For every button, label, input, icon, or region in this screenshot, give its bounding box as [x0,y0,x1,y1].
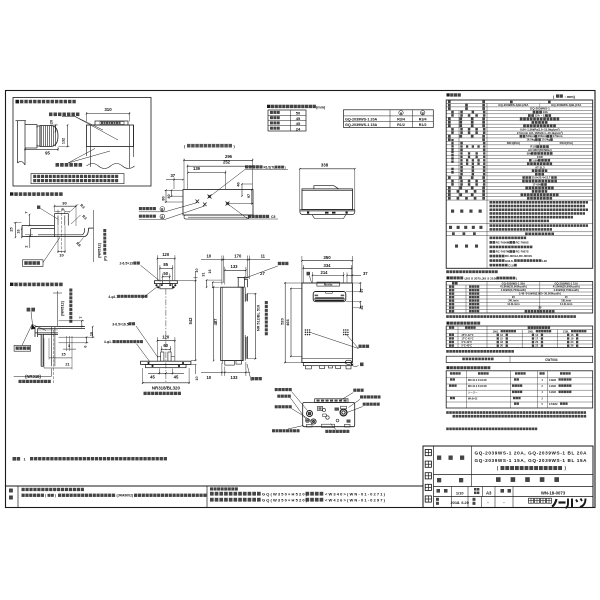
spec row 26 [532,190,547,193]
fixing table header cells [450,372,461,374]
svg-text:L38: L38 [542,259,547,263]
svg-text:160L: 160L [493,329,499,333]
label: hot water connection [275,405,292,408]
svg-text:(NR512): (NR512) [60,300,65,316]
svg-text:R3/4: R3/4 [419,117,428,121]
svg-text:139: 139 [193,166,201,171]
circled A header [399,111,403,115]
side view rear bracket strips [245,294,247,301]
svg-text:7: 7 [79,316,83,318]
svg-text:AT-3L3: AT-3L3 [535,165,545,169]
front base feet and stubs [306,366,312,369]
spec row 17 standby [529,159,532,162]
hole marker A (katakana a) [307,272,311,276]
svg-text:10: 10 [206,254,211,259]
svg-text:A3: A3 [486,491,492,496]
bottom view center parts [318,407,323,411]
spec row 21 material [535,173,544,176]
svg-text:C110: C110 [508,263,515,267]
label leader: alcove body [49,113,79,117]
notes cell label [17,486,19,508]
svg-text:M4×11.2 44.8×38: M4×11.2 44.8×38 [468,379,487,382]
bottom view gas connection [340,409,347,416]
svg-text:45: 45 [150,374,155,379]
svg-text:25°C-42°C: 25°C-42°C [462,334,474,337]
note under capacity table [446,315,576,318]
svg-text:11: 11 [261,254,266,259]
front view bottom seam [302,358,352,360]
PS frame reference line 1 [210,492,261,496]
svg-text:10: 10 [195,376,199,380]
wall fixing table header [447,366,450,369]
svg-text:GQ-2039WS-1 20A: GQ-2039WS-1 20A [502,281,526,285]
spec row 7 ignition [523,125,556,128]
perspective view top face [183,190,253,216]
drawing name label [437,478,441,482]
svg-text:0.54kN/: 0.54kN/ [549,403,558,406]
svg-text:0.3kN/: 0.3kN/ [549,379,556,382]
svg-text:50: 50 [163,271,168,276]
svg-text:RC-8001A,RC-8001S: RC-8001A,RC-8001S [505,254,532,258]
svg-text:95: 95 [45,150,50,155]
svg-text:27: 27 [260,271,265,276]
fixing table data [450,378,455,380]
hot water marker [196,200,200,204]
svg-text:GQ-2039WS-1(BL)20A: GQ-2039WS-1(BL)20A [498,103,529,107]
svg-text:NR 512/BL 510: NR 512/BL 510 [257,305,261,331]
label: drain valve [277,395,291,398]
front exhaust grille [313,292,346,302]
notes text [22,488,84,491]
svg-text:(NR512): (NR512) [97,242,102,258]
spec row 20 material stainless [532,169,547,172]
detail A hat section [54,214,56,237]
svg-text:133: 133 [231,264,239,269]
top view top tab [314,186,339,189]
label: earth terminal screw [325,430,349,433]
label: air intake (front) [359,345,370,348]
svg-text:15.5kg: 15.5kg [541,138,550,142]
svg-text:45: 45 [296,121,301,126]
svg-text:173mm: 173mm [553,134,563,138]
bottom view body [303,403,355,427]
black arrow corner mark [31,324,35,329]
alcove side view cover (hatched) [40,126,58,147]
svg-text:2: 2 [24,245,28,247]
svg-text:GQ-2039WS-1 15A: GQ-2039WS-1 15A [554,281,578,285]
alcove front view top tab [95,121,128,125]
svg-text:GQ(W350×H520): GQ(W350×H520) [262,498,308,503]
svg-text:40: 40 [237,182,241,186]
spec row 27 [521,194,559,197]
boxed label: unit top face [23,260,44,267]
svg-text:(PS: (PS [104,256,108,261]
bottom bracket plate [141,361,191,364]
svg-text:296: 296 [225,154,233,159]
small table depth grid [268,110,306,131]
svg-text:(mm): (mm) [316,105,326,109]
spec row 5 installation [520,118,559,121]
svg-text:GQ(W350×H520): GQ(W350×H520) [262,492,308,497]
outer drawing frame [6,91,596,508]
front bottom right hole ellipse [345,360,352,364]
spec row 4 gas types [528,114,534,117]
svg-text:120: 120 [162,252,170,257]
svg-text:30: 30 [62,200,67,205]
weld dots bottom bracket [148,362,150,364]
svg-text:210L: 210L [563,329,569,333]
detail B profile [35,326,85,328]
svg-text:45: 45 [296,116,301,121]
svg-text:NR318/BL320: NR318/BL320 [152,385,181,390]
label: power conduit C5 [248,215,269,218]
boxed label: unit rear face [14,345,31,351]
label leader: tapping screw [56,163,83,167]
spec row 22 exhaust cover data [522,176,531,179]
svg-text:60: 60 [163,343,168,348]
spec row 6 exhaust type [532,121,548,124]
alcove front view body [87,125,134,147]
scale row cells [451,487,453,497]
svg-text:21: 21 [65,362,69,366]
svg-text:R1/2(TL: R1/2(TL [264,166,276,170]
svg-text:310: 310 [104,107,112,112]
svg-text:<W340>(WN-01-0271): <W340>(WN-01-0271) [325,492,386,497]
bottom view top vent band [315,399,348,403]
Noritz company logo [529,498,534,503]
hole marker I (katakana i) bottom [360,363,364,367]
label: backflow safety device [272,429,300,432]
svg-text:R1/2(15A): R1/2(15A) [560,141,573,145]
weld dots top bracket [156,284,158,286]
svg-text:17°C-42°C: 17°C-42°C [462,338,474,341]
svg-text:M4.8×12: M4.8×12 [468,397,478,400]
bottom notes divider line [6,485,424,487]
svg-text:): ) [516,276,517,280]
svg-text:): ) [55,494,56,498]
svg-text:25: 25 [10,227,14,231]
svg-text:50: 50 [296,111,301,116]
svg-text:10: 10 [206,375,211,380]
svg-text:41.8kW(35,900kcal/h): 41.8kW(35,900kcal/h) [500,285,527,289]
svg-text:15: 15 [61,353,65,357]
bath table headers [449,326,454,328]
certification number table [446,356,593,362]
spec row 23 BL cert [522,180,557,183]
label: alcove exhaust cover L38 [16,100,20,104]
svg-text:1: 1 [24,458,26,462]
spec table label column line [486,103,488,268]
svg-text:132: 132 [62,138,66,144]
svg-text:R3/4: R3/4 [397,117,406,121]
svg-text:4-φ1.7: 4-φ1.7 [108,295,118,299]
svg-text:350: 350 [323,255,331,260]
label: gas connection R1/2 TL [245,165,263,168]
note: remote controller types [446,270,498,273]
svg-text:7: 7 [24,211,28,213]
small table depth rows [270,111,280,114]
bath fill time header [447,322,450,325]
label: gas connection (bottom view) [363,403,380,406]
bottom view hot water outlet [311,419,316,424]
title block row lines [434,474,594,476]
spec table title [447,93,450,96]
label leader: slot hole (detail B) [27,308,35,312]
svg-text:170: 170 [234,254,242,259]
label: air intake (bottom view) [353,389,363,392]
title block vertical label: delivery spec drawing [425,450,431,456]
detail B slot verticals [51,327,53,367]
front logo plate [317,282,340,286]
svg-text:R1/2: R1/2 [397,123,405,127]
detail A profile lines [22,225,55,227]
svg-text:): ) [285,166,286,170]
svg-text:4.30kW(3,700kcal/h): 4.30kW(3,700kcal/h) [553,288,579,292]
bottom view bottom tabs [322,424,335,427]
cold water marker [203,203,207,207]
product name label [471,446,473,487]
detail A slot centerline [61,209,63,254]
svg-text:14.3L/min: 14.3L/min [560,302,573,306]
svg-text:18L/min: 18L/min [561,299,572,303]
svg-text:120: 120 [162,334,170,339]
svg-text:133: 133 [231,375,239,380]
svg-text:R1/2: R1/2 [419,123,427,127]
svg-text:338: 338 [321,162,329,167]
small table: model connection sizes [344,110,434,128]
svg-text:GQ-2039WS-1 20A, GQ-2039WS-1 B: GQ-2039WS-1 20A, GQ-2039WS-1 BL 20A [475,450,588,455]
svg-text:41.8kW(35,900kcal/h): 41.8kW(35,900kcal/h) [553,285,580,289]
alcove cover detail box [13,98,151,187]
note box: direction change text [31,174,124,184]
front view body [302,283,353,363]
label: cold water connection circled A [139,215,156,218]
note under bath table [446,350,514,353]
svg-text:97: 97 [247,194,251,198]
PS frame reference line 2 [210,498,261,502]
svg-text:542: 542 [188,317,193,325]
spec row 18 freeze heater [527,162,552,165]
label: air intake (side) [251,377,262,380]
alcove front view lower body with break line [90,147,92,168]
front view base [303,363,351,366]
label: hot water connection circled B [139,207,156,210]
svg-text:(JRA9002): (JRA9002) [117,494,134,498]
svg-text:45: 45 [174,374,179,379]
svg-text:31: 31 [202,272,206,276]
label PS frame mounting pitch bottom [144,392,181,395]
date row cells [451,497,453,508]
svg-text:H33-K,: H33-K, [505,259,514,263]
svg-text:GQ-2039WS-1 15A, GQ-2039WS-1 B: GQ-2039WS-1 15A, GQ-2039WS-1 BL 15A [475,458,588,463]
front vent holes right group [343,329,344,330]
spec row header [510,101,513,104]
spec row 1 model names [539,103,541,106]
svg-text:6: 6 [62,208,64,212]
accessory row [452,232,455,235]
bracket centerline [165,289,167,352]
side view body [221,287,244,360]
top view mount dots [307,212,309,214]
svg-text:9°C-42°C: 9°C-42°C [462,341,473,344]
svg-text:10: 10 [59,253,64,258]
svg-text:C5: C5 [271,215,275,219]
alcove side view wall [17,121,19,163]
note: PS frame mounting uses holes A and I [13,457,21,461]
svg-text:1/10: 1/10 [456,490,464,495]
front vent holes left group [305,329,306,330]
power conduit marker [226,202,230,206]
spec row 10 dimensions [520,135,526,138]
svg-text:2-6.5×13: 2-6.5×13 [120,262,134,266]
svg-text:6: 6 [83,345,87,347]
svg-text:WN-18-0073: WN-18-0073 [541,490,566,495]
svg-text:0.2kN/: 0.2kN/ [549,391,556,394]
svg-text:24: 24 [296,126,301,131]
svg-text:16.5kg: 16.5kg [526,138,535,142]
svg-text:RC-7606M,: RC-7606M, [496,241,511,245]
svg-text:0.2kN/: 0.2kN/ [549,385,556,388]
svg-text:3: 3 [68,344,70,348]
svg-text:RC-7607S: RC-7607S [516,250,529,254]
svg-text:20: 20 [50,120,54,124]
small table: depth from back plate header [267,105,270,108]
svg-text:37: 37 [363,271,368,276]
capacity table header [447,276,450,279]
svg-text:180L: 180L [528,329,534,333]
svg-text:17-009: 17-009 [532,183,541,187]
svg-text:80: 80 [161,196,165,200]
circled B header [421,111,425,115]
top view body [302,189,353,210]
label: power conduit connection [360,395,381,398]
svg-text:35.9×25.4×13.7: 35.9×25.4×13.7 [532,176,551,180]
svg-text:4.30kW(3,700kcal/h): 4.30kW(3,700kcal/h) [501,288,527,292]
svg-text:40: 40 [167,194,171,198]
svg-text:RC-7607M,: RC-7607M, [496,250,511,254]
spec row 12 gas connection [539,141,541,144]
svg-text:24L/min: 24L/min [508,299,519,303]
svg-text:2018. 6.20: 2018. 6.20 [451,500,469,505]
svg-text:37: 37 [170,173,175,178]
label: exhaust outlet (top center) [278,262,289,265]
svg-text:334: 334 [324,263,332,268]
spec table main grid [446,100,593,268]
svg-text:3-6.5×16.5: 3-6.5×16.5 [112,322,128,326]
top view bottom tab [312,215,346,219]
bath table data rows [449,334,454,336]
hole mark label [37,206,40,209]
svg-text:520: 520 [279,318,284,325]
bottom view inner left: water inlet [307,411,313,417]
safety devices cell label [451,210,454,213]
optional items cell [455,245,458,248]
side view exhaust duct [238,277,244,287]
spec row 3 gas group [533,111,542,114]
svg-text:GQ-2039WS-1 15A: GQ-2039WS-1 15A [345,123,378,127]
svg-text:15: 15 [565,295,568,299]
svg-text:20: 20 [512,295,515,299]
top bracket shape [155,281,178,284]
bath fill time table [446,326,593,348]
side view bottom parts [225,361,235,366]
svg-text:14.3L/min: 14.3L/min [507,302,520,306]
svg-text:20: 20 [538,306,541,310]
perspective view bottom flange [184,215,249,219]
svg-text:CW7004: CW7004 [545,358,558,362]
svg-text:85: 85 [163,262,168,267]
detail B dim line to pitch [57,291,59,326]
label: cold water connection [275,388,292,391]
svg-text:(JIS S 2075,JIS S 2109: (JIS S 2075,JIS S 2109 [465,276,498,280]
svg-text:214: 214 [321,270,329,275]
svg-text:5°C-42°C: 5°C-42°C [462,345,473,348]
svg-text:GQ-2039WS-1(BL)15A: GQ-2039WS-1(BL)15A [551,103,582,107]
svg-text:Noritz: Noritz [324,282,333,286]
buzzer function cell [449,226,452,229]
svg-text:M4×11.2 44.8×38: M4×11.2 44.8×38 [468,385,487,388]
bottom view right parts [335,408,340,411]
gas connection marker [208,195,212,199]
wall fixing table [446,371,593,408]
label: detail A scale 1/2 [10,192,13,195]
svg-text:16: 16 [16,229,20,233]
drawing name value [496,477,501,482]
capacity header row [452,282,458,285]
spec row 25 [525,187,553,190]
svg-text:<W426>(WN-01-0297): <W426>(WN-01-0297) [325,498,386,503]
svg-text:466: 466 [285,318,290,325]
svg-text:16: 16 [208,269,212,273]
svg-text:3.48~34.9kW(3,000~30,000kcal/h: 3.48~34.9kW(3,000~30,000kcal/h) [519,292,561,296]
bottom view drain valve [306,419,310,423]
alcove side view mount bracket [25,124,37,126]
capacity table [446,282,593,314]
title block outline [423,446,593,508]
safety devices text lines [490,201,589,204]
svg-text:R3/4(20A): R3/4(20A) [507,141,520,145]
svg-text:4-φ1.7: 4-φ1.7 [104,340,114,344]
label: detail B scale 1/2 [10,283,13,286]
svg-text:RC-7606S: RC-7606S [516,241,529,245]
bottom bracket hooks [161,352,164,361]
svg-text:GQ-2039WS-1 20A: GQ-2039WS-1 20A [345,117,378,121]
svg-text:シージー: シージー [468,390,478,394]
svg-text:252: 252 [223,160,231,165]
svg-text:: mm): : mm) [565,95,576,99]
spec row 28 [527,197,552,200]
reference frame drawings cell [206,486,208,508]
notes under fixing table [446,411,586,414]
svg-text:487: 487 [213,318,218,326]
top view bottom flange [300,211,355,215]
